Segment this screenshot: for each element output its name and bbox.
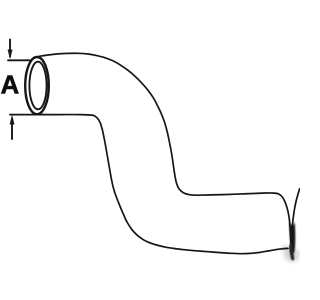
- hose top outline: [39, 53, 291, 244]
- dimension extension line top: [8, 59, 30, 61]
- hose far-end right curve: [291, 189, 299, 246]
- svg-text:A: A: [1, 70, 20, 100]
- hose mouth inner ellipse: [29, 62, 46, 110]
- hose mouth outer ellipse: [25, 57, 49, 114]
- dimension extension line bottom: [10, 114, 44, 116]
- dimension arrow bottom (pointing up): [11, 119, 13, 139]
- far end dark smudge: [281, 221, 301, 262]
- hose bottom outline: [40, 115, 288, 254]
- dimension arrow top (pointing down): [9, 40, 11, 57]
